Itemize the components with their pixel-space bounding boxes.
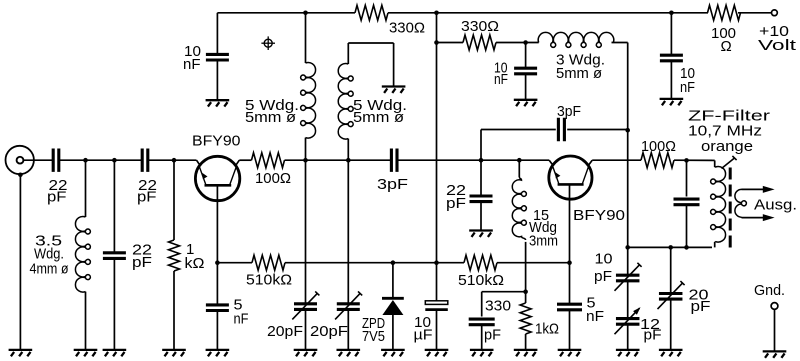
label 20pF #2 [310, 323, 348, 340]
label 330Ω #2 [461, 18, 499, 35]
inductor ZF primary [711, 166, 726, 242]
wire L4 top [85, 160, 87, 217]
trimmer arrow 20pF-1 [292, 291, 319, 319]
ground trim1 [294, 350, 318, 356]
wire 10nF-1 top [216, 13, 218, 54]
capacitor C-10uF minus plate [425, 308, 448, 311]
transistor Q1 base bar [205, 184, 232, 187]
wire 330-2 left [437, 42, 464, 44]
node 10uF tap [434, 260, 439, 265]
svg-text:pF: pF [644, 327, 662, 344]
diode ZPD triangle [382, 300, 403, 315]
transistor Q1 collector lead [230, 166, 237, 184]
wire R100 to L1 [285, 159, 306, 161]
label 330 pF [484, 298, 511, 344]
wire input to C1 [23, 159, 52, 161]
svg-text:10,7 MHz: 10,7 MHz [688, 123, 762, 140]
wire zener bottom [392, 315, 394, 350]
ground zener [381, 350, 405, 356]
resistor R-1k-1 vertical [169, 240, 180, 271]
wire 330pF row [482, 292, 526, 317]
svg-text:20pF: 20pF [310, 323, 348, 340]
label 22 pF #2 [137, 177, 157, 206]
label 510kΩ #1 [246, 272, 292, 289]
svg-text:3pF: 3pF [377, 176, 408, 193]
wire L4 bottom [85, 292, 87, 350]
trimmer arrow 10pF [615, 263, 642, 291]
connector input BNC [6, 146, 34, 174]
transistor Q2 base lead down [569, 184, 571, 262]
svg-text:pF: pF [446, 195, 466, 212]
ground for L2 [382, 87, 406, 93]
wire node6 to L5 [481, 159, 519, 161]
wire vertical B x436 [436, 13, 438, 263]
svg-text:Gnd.: Gnd. [754, 282, 785, 299]
wire feedback right [567, 129, 628, 131]
wire base row right [497, 262, 570, 264]
label 22 pF #1 [47, 177, 68, 206]
wire trim20-3 top [670, 247, 672, 293]
wire coil L2 top link [348, 43, 393, 86]
wire L5 to Q2 [519, 160, 553, 165]
wire 5nF-1 top [216, 263, 218, 305]
ground L4 [74, 350, 98, 356]
wire L3 right elbow [612, 43, 628, 131]
label 3pF #1 [377, 176, 408, 193]
wire C2 to Q1 [148, 160, 201, 166]
ground 10uF [425, 350, 449, 356]
label L2 5 Wdg. [353, 97, 407, 126]
capacitor C-filter parallel [674, 199, 700, 205]
wire L1 to L2 node [306, 159, 349, 161]
node main row L2 [346, 158, 351, 163]
label ZF-Filter [688, 108, 770, 156]
diode ZPD cathode bar [382, 297, 404, 300]
resistor R-330-1 330Ω top [355, 5, 388, 20]
wire base row left [217, 262, 252, 264]
label L1 5 Wdg. [245, 97, 299, 126]
label 10 pF [594, 251, 613, 286]
svg-text:1kΩ: 1kΩ [535, 321, 559, 338]
label 100Ω #2 [641, 138, 676, 155]
wire output top [742, 188, 764, 190]
svg-text:510kΩ: 510kΩ [246, 272, 292, 289]
wire 10nF-3 bottom [670, 62, 672, 98]
filter adjust arrow [722, 156, 737, 169]
wire filter primary bottom hook [714, 242, 717, 248]
transistor Q1 emitter lead [199, 166, 206, 184]
node bottom rail B [668, 245, 673, 250]
node L5 tap [517, 158, 522, 163]
wire 10uF bottom [436, 311, 438, 350]
wire C1 to C2 [59, 159, 141, 161]
svg-text:BFY90: BFY90 [573, 207, 625, 224]
label Gnd. [754, 282, 785, 299]
label 10 nF #2 [494, 60, 508, 89]
node C-22-shunt tap [112, 158, 117, 163]
svg-text:330Ω: 330Ω [461, 18, 499, 35]
resistor R-100-2 [641, 153, 674, 168]
inductor L3 3 Wdg horizontal [538, 32, 614, 47]
inductor L4 3.5 Wdg [75, 217, 90, 293]
node Q2 base join [567, 260, 572, 265]
trimmer C-10pF [616, 275, 640, 281]
terminal Gnd circle [771, 303, 778, 310]
label 10 nF #1 [183, 43, 201, 73]
capacitor C-10nF-3 [660, 55, 683, 61]
label 510kΩ #2 [458, 272, 504, 289]
arrow output bottom [763, 214, 775, 221]
svg-text:nF: nF [494, 71, 508, 88]
wire Gnd [774, 309, 776, 351]
node B y42 [434, 40, 439, 45]
resistor R-1k-2 vertical [520, 303, 531, 334]
svg-text:Ausg.: Ausg. [754, 197, 797, 214]
ground trim20-3 [659, 350, 683, 356]
capacitor C-22pF-1 [53, 149, 59, 172]
transistor Q2 collector lead [582, 166, 589, 184]
ground connector [9, 350, 33, 356]
wire R1k-2 bottom [525, 334, 527, 350]
ground trim12 [616, 350, 640, 356]
inductor ZF secondary [735, 189, 747, 217]
wire filter primary top hook [712, 160, 716, 167]
node Q1 base join [215, 260, 220, 265]
filter core dashed line [729, 168, 732, 249]
wire trim1 bottom [305, 309, 307, 349]
wire 10nF-3 top [670, 13, 672, 54]
label L3 3 Wdg. [556, 52, 605, 83]
terminal +10 Volt [772, 10, 778, 16]
capacitor C-22pF-3 shunt [103, 253, 126, 259]
ground R1k-1 [162, 350, 186, 356]
wire feedback up [481, 130, 556, 161]
label 5 nF #1 [234, 297, 249, 328]
trimmer C-20pF-3 [659, 294, 683, 300]
wire Q1 collector to R100 [235, 160, 251, 166]
test point crosshair [261, 36, 275, 50]
svg-text:nF: nF [234, 311, 249, 328]
wire Q2 collector [588, 160, 641, 165]
wire output bottom [742, 217, 764, 219]
trimmer arrow 12pF [615, 307, 641, 334]
node feedback join [625, 128, 630, 133]
wire 5nF-1 bottom [216, 311, 218, 350]
wire L5 bottom [525, 242, 527, 303]
node filter top [684, 158, 689, 163]
svg-text:3pF: 3pF [557, 103, 581, 120]
node ZPD tap [391, 260, 396, 265]
label 1 kΩ [185, 241, 205, 272]
node 330pF row join [523, 289, 528, 294]
label 3.5 Wdg 4mm [30, 233, 69, 278]
resistor R-100-1 [252, 153, 285, 168]
inductor L1 5 Wdg [301, 63, 316, 139]
wire C22-4 top [480, 160, 482, 195]
transistor Q1 emitter arrow [202, 173, 207, 179]
capacitor C-10uF plus plate [425, 301, 448, 305]
label +10 Volt [758, 23, 797, 54]
wire C22-shunt bottom [113, 258, 115, 349]
capacitor C-22pF-2 [142, 149, 148, 172]
wire C22-shunt top [113, 160, 115, 253]
capacitor C-5nF-1 [206, 305, 229, 311]
svg-text:BFY90: BFY90 [192, 133, 241, 150]
label 1kΩ #2 [535, 321, 559, 338]
wire x627 mid [627, 130, 629, 247]
capacitor C-330pF [469, 319, 495, 325]
svg-text:µF: µF [414, 327, 433, 344]
svg-text:7V5: 7V5 [362, 328, 385, 345]
node top rail junction C [669, 11, 674, 16]
wire base row mid [285, 262, 464, 264]
label ZPD 7V5 [362, 315, 385, 345]
transistor Q2 emitter arrow [555, 172, 560, 178]
node top rail junction A [303, 11, 308, 16]
wire 330-2 right [496, 42, 539, 44]
label 22 pF #3 [132, 242, 152, 272]
ground under 10nF-1 [206, 100, 230, 106]
svg-text:pF: pF [47, 189, 67, 206]
svg-text:510kΩ: 510kΩ [458, 272, 504, 289]
node C10nF2 tap [523, 40, 528, 45]
wire connector ground [19, 175, 21, 350]
wire 330pF bottom [481, 325, 483, 350]
wire trim1 top [305, 160, 307, 304]
svg-text:pF: pF [484, 327, 501, 344]
ground 330pF [470, 350, 494, 356]
ground C22-shunt [103, 350, 127, 356]
trimmer C-20pF-2 [337, 304, 360, 310]
wire coil L1 top [305, 13, 307, 63]
wire top supply rail [217, 12, 771, 14]
label 20 pF #3 [689, 287, 711, 316]
svg-text:Ω: Ω [721, 38, 732, 55]
svg-text:kΩ: kΩ [185, 255, 205, 272]
trimmer C-12pF [616, 319, 640, 325]
trimmer arrow 20pF-3 [658, 281, 685, 309]
label BFY90 Q1 [192, 133, 241, 150]
ground 5nF-1 [206, 350, 230, 356]
arrow output top [763, 186, 775, 193]
wire 10uF top [436, 263, 438, 301]
wire C-10nF-2 bottom [525, 75, 527, 99]
svg-text:5mm ø: 5mm ø [556, 65, 602, 82]
node R-1k tap [172, 158, 177, 163]
svg-text:nF: nF [680, 79, 695, 96]
label 100 Ω supply [711, 25, 736, 55]
label 100Ω #1 [255, 170, 291, 187]
svg-text:5mm ø: 5mm ø [353, 109, 404, 126]
svg-text:100Ω: 100Ω [255, 170, 291, 187]
wire trim10 top [627, 247, 629, 274]
wire L2 to 3pF [348, 159, 390, 161]
wire 5nF-2 bottom [569, 311, 571, 350]
wire coil L2 bottom [347, 139, 349, 161]
svg-text:orange: orange [701, 138, 753, 155]
transistor Q2 emitter lead [552, 166, 558, 184]
label 10 nF #3 [680, 65, 695, 96]
wire R100-2 to filter [674, 159, 712, 161]
label 12 pF [640, 316, 662, 344]
svg-text:pF: pF [691, 298, 711, 315]
wire L5 vert [518, 160, 520, 177]
svg-text:20pF: 20pF [267, 323, 303, 340]
trimmer arrow 20pF-2 [335, 291, 362, 319]
node bottom rail A [625, 245, 630, 250]
svg-text:10: 10 [595, 251, 613, 268]
svg-text:pF: pF [594, 268, 612, 285]
svg-text:330Ω: 330Ω [389, 20, 425, 37]
svg-text:3mm: 3mm [529, 233, 558, 250]
wire bottom rail [628, 246, 712, 248]
wire 5nF-2 top [569, 263, 571, 304]
wire 3pF to node6 [398, 159, 481, 161]
wire trim2 top [347, 160, 349, 304]
trimmer C-20pF-1 [294, 304, 317, 310]
wire filter cap bottom [686, 205, 688, 248]
capacitor C-10nF-2 wire [525, 43, 527, 68]
svg-text:4mm ø: 4mm ø [30, 261, 69, 278]
capacitor C-5nF-2 [557, 304, 582, 310]
resistor R-510k-1 [252, 255, 285, 270]
transistor Q2 circle [549, 156, 592, 199]
label 10 µF [414, 314, 433, 344]
wire 10nF-1 bottom [216, 61, 218, 100]
wire R1k-1 top [173, 160, 175, 240]
wire R1k-1 bottom [173, 271, 175, 350]
transistor Q1 circle [195, 156, 239, 200]
label 3pF #2 [557, 103, 581, 120]
node main row Q2 side [479, 158, 484, 163]
svg-text:100Ω: 100Ω [641, 138, 676, 155]
node L4 tap [83, 158, 88, 163]
wire trim10-12 link [627, 282, 629, 318]
svg-text:pF: pF [137, 189, 157, 206]
ground C22-4 [469, 231, 493, 237]
svg-text:5mm ø: 5mm ø [245, 109, 296, 126]
inductor L2 5 Wdg [338, 64, 353, 140]
ground under 10nF-3 [660, 99, 684, 105]
label 20pF #1 [267, 323, 303, 340]
wire C22-4 bottom [480, 202, 482, 230]
node bottom rail C [684, 245, 689, 250]
svg-text:nF: nF [183, 56, 201, 73]
svg-text:pF: pF [132, 254, 152, 271]
label Ausg. [754, 197, 797, 214]
wire trim12 bottom [627, 325, 629, 350]
wire trim2 bottom [347, 309, 349, 349]
node connector ground tap [18, 173, 23, 178]
ground trim2 [337, 350, 361, 356]
capacitor C-10nF-2 [514, 68, 537, 74]
capacitor C-3pF-2 [558, 118, 564, 141]
svg-text:Volt: Volt [758, 37, 797, 54]
label 22 pF #4 [446, 182, 466, 212]
resistor R-100-supply 100Ω [708, 5, 741, 20]
resistor R-330-2 330Ω [463, 35, 496, 50]
transistor Q1 base lead down [216, 185, 218, 262]
label 15 Wdg 3mm [529, 207, 558, 250]
wire coil L1 bottom [305, 138, 307, 161]
wire zener top [392, 263, 394, 297]
ground 5nF-2 [558, 350, 582, 356]
inductor L5 15 Wdg [512, 177, 526, 240]
node main row L1 [303, 158, 308, 163]
wire trim20-3 bottom [670, 299, 672, 350]
ground Gnd terminal [763, 351, 787, 357]
label 5 nF #2 [586, 295, 604, 326]
svg-text:nF: nF [586, 308, 604, 325]
svg-text:330: 330 [485, 298, 511, 315]
capacitor C-10nF-1 [206, 54, 229, 60]
ground under C-10nF-2 [514, 100, 538, 106]
capacitor C-22pF-4 [470, 196, 493, 202]
ground R1k-2 [514, 350, 538, 356]
capacitor C-3pF-1 series [391, 149, 397, 172]
resistor R-510k-2 [464, 255, 497, 270]
transistor Q2 base bar [558, 183, 584, 186]
label BFY90 Q2 [573, 207, 625, 224]
node top rail junction B [434, 11, 439, 16]
label 330Ω [389, 20, 425, 37]
wire filter cap branch [686, 160, 688, 196]
